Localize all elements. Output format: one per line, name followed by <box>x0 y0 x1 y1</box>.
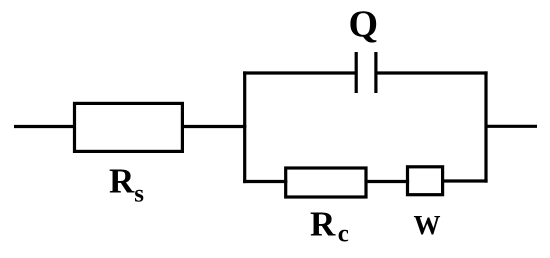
wire: right vertical bus <box>484 71 487 182</box>
svg-text:W: W <box>414 210 441 240</box>
capacitor Q left plate <box>355 52 358 93</box>
resistor Rc (box) <box>286 168 366 197</box>
capacitor Q right plate <box>374 52 377 93</box>
resistor Rs (box) <box>75 103 183 151</box>
wire: top branch left <box>243 71 356 74</box>
svg-text:Q: Q <box>349 3 379 45</box>
Warburg element W (box) <box>408 167 443 195</box>
wire: input stub <box>14 125 76 128</box>
wire: top branch right <box>376 71 488 74</box>
svg-text:Rs: Rs <box>109 162 144 208</box>
svg-text:Rc: Rc <box>310 205 349 248</box>
wire: Rc to W <box>366 180 409 183</box>
wire: bottom branch left <box>243 180 287 183</box>
wire: left vertical bus <box>243 71 246 183</box>
wire: W to right bus <box>443 179 488 182</box>
wire: Rs to parallel network <box>182 125 246 128</box>
wire: output stub <box>486 125 537 128</box>
